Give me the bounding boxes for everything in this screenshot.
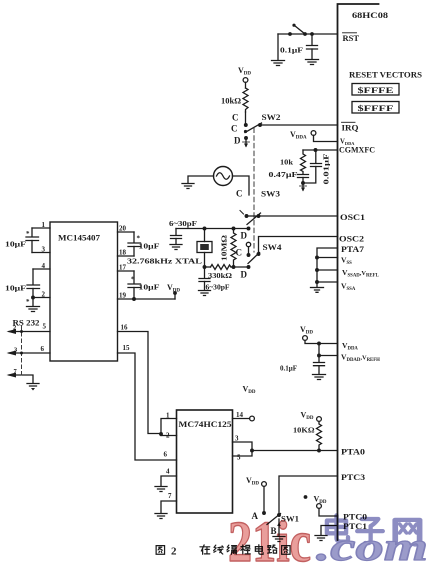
pin RST	[343, 33, 360, 43]
svg-text:6: 6	[164, 451, 168, 459]
wire B to ground	[278, 519, 280, 536]
pin 20	[118, 231, 135, 233]
svg-text:10kΩ: 10kΩ	[221, 97, 242, 106]
pin 15	[118, 353, 177, 460]
svg-text:C: C	[231, 124, 238, 134]
switch SW4	[248, 243, 282, 264]
reset switch (pushbutton)	[278, 24, 338, 36]
resistor 10K ohm	[293, 421, 322, 450]
power VDD terminal for A	[246, 476, 266, 487]
wire CGMXFC	[303, 149, 338, 151]
pin 1	[161, 419, 177, 436]
wire reset left leg	[277, 34, 279, 60]
svg-text:PTA0: PTA0	[341, 448, 365, 457]
svg-text:VDD: VDD	[238, 66, 251, 77]
ground	[306, 60, 319, 65]
svg-text:MC74HC125: MC74HC125	[179, 419, 233, 429]
power VDD terminal pin14	[250, 416, 255, 421]
wire PTC0	[319, 508, 338, 516]
wire OSC2	[259, 237, 338, 255]
pins PTA7/VSS rail to ground	[315, 248, 337, 287]
svg-text:0.1μF: 0.1μF	[280, 365, 297, 373]
caption 图2 在线编程电路图	[156, 545, 290, 558]
pin IRQ	[342, 122, 360, 132]
connector dashed line	[21, 326, 23, 377]
svg-text:SW2: SW2	[262, 113, 281, 122]
switch SW1	[267, 513, 299, 524]
svg-text:1: 1	[42, 221, 46, 229]
svg-text:VDD: VDD	[167, 283, 180, 294]
power VDDA terminal	[290, 130, 316, 141]
svg-text:VDD: VDD	[301, 411, 314, 422]
svg-text:OSC2: OSC2	[339, 234, 364, 244]
wire source left to ground	[188, 176, 214, 183]
ground	[155, 487, 167, 492]
svg-text:20: 20	[119, 225, 127, 233]
open contact terminal	[246, 242, 250, 257]
node dot	[304, 495, 308, 499]
pin 18	[118, 255, 135, 257]
wire	[245, 82, 247, 88]
svg-text:VDDA: VDDA	[342, 341, 358, 352]
svg-text:4: 4	[42, 262, 46, 270]
svg-text:RS 232: RS 232	[13, 319, 40, 328]
svg-text:PTC3: PTC3	[341, 473, 365, 482]
svg-text:10μF: 10μF	[5, 284, 27, 293]
arrow	[7, 373, 17, 378]
pin 2	[161, 435, 177, 437]
AC source (external clock)	[214, 167, 233, 186]
watermark 电子网	[327, 515, 420, 544]
capacitor 6~30pF left	[169, 219, 198, 244]
svg-text:2: 2	[166, 432, 170, 440]
svg-text:5: 5	[237, 454, 241, 462]
ground	[170, 245, 182, 250]
watermark 21ic.com 电子网	[228, 509, 428, 564]
capacitor 6~30pF bottom	[199, 267, 230, 292]
capacitor 0.1uF decoupling	[280, 356, 325, 375]
oscillator bottom rail + resistor 330k ohm	[205, 265, 249, 281]
svg-text:VSS: VSS	[341, 256, 352, 267]
svg-text:C: C	[232, 113, 239, 123]
svg-text:6~30pF: 6~30pF	[169, 219, 198, 228]
IC MC145407	[50, 222, 118, 361]
ground	[311, 288, 324, 293]
ground	[273, 537, 285, 542]
resistor 10k ohm pullup	[221, 88, 248, 112]
svg-text:10μF: 10μF	[139, 242, 161, 251]
ground	[272, 61, 285, 66]
svg-text:OSC1: OSC1	[340, 212, 365, 222]
svg-text:32.768kHz XTAL: 32.768kHz XTAL	[127, 257, 202, 266]
svg-text:0.47μF: 0.47μF	[269, 170, 299, 179]
power VDD above 10k	[238, 66, 251, 82]
box $FFFE	[352, 84, 399, 96]
box $FFFF	[352, 102, 399, 114]
arrow	[7, 329, 17, 334]
svg-text:IRQ: IRQ	[342, 124, 360, 133]
MCU 68HC08 boundary line	[338, 4, 379, 540]
svg-text:19: 19	[119, 292, 127, 300]
svg-text:VDD: VDD	[243, 385, 256, 396]
IC MC74HC125	[177, 410, 233, 513]
pin 4	[161, 476, 177, 486]
pin 16	[118, 332, 162, 434]
pin 5	[9, 331, 50, 333]
svg-text:RST: RST	[343, 34, 360, 43]
wire to ground	[31, 296, 35, 300]
ground	[315, 536, 327, 541]
svg-text:RESET VECTORS: RESET VECTORS	[349, 70, 422, 80]
power VDD mid terminal	[300, 325, 313, 340]
svg-text:68HC08: 68HC08	[352, 10, 389, 20]
svg-text:PTA7: PTA7	[341, 245, 364, 254]
svg-text:D: D	[241, 231, 248, 241]
svg-text:VDD: VDD	[246, 476, 259, 487]
capacitor 10uF (20-18)	[128, 232, 160, 256]
svg-text:2: 2	[171, 546, 177, 558]
svg-text:5: 5	[43, 323, 47, 331]
svg-text:VDDA: VDDA	[290, 130, 307, 141]
pin 1	[32, 227, 50, 229]
capacitor 0.01uF	[303, 150, 331, 185]
node junction + ground arrow	[300, 181, 307, 191]
svg-text:7: 7	[168, 492, 172, 500]
RS232 pin 7 wire	[9, 375, 33, 383]
wire PTC1 to ground	[321, 526, 338, 536]
resistor 10M ohm	[220, 229, 237, 268]
svg-text:10μF: 10μF	[5, 240, 27, 249]
wire PTA0	[252, 450, 338, 452]
capacitor 0.47uF	[269, 170, 309, 183]
wire VDDA to pin	[314, 135, 338, 141]
ground	[27, 307, 40, 312]
pin 2	[33, 297, 50, 299]
svg-text:18: 18	[119, 249, 127, 257]
svg-text:D: D	[234, 136, 241, 146]
wires VDD to VDDA & VDDAD pins	[305, 340, 338, 343]
svg-text:VDD: VDD	[300, 325, 313, 336]
svg-text:10MΩ: 10MΩ	[220, 235, 229, 261]
capacitor 10uF (17-19)	[128, 271, 160, 299]
gang dashed link SW2-SW3-SW4	[253, 128, 255, 252]
svg-text:4: 4	[166, 468, 170, 476]
svg-text:C: C	[236, 189, 243, 199]
wire IRQ	[260, 124, 338, 126]
switch SW3 on OSC1	[240, 211, 338, 225]
svg-text:10μF: 10μF	[139, 283, 161, 292]
svg-text:D: D	[241, 270, 248, 280]
svg-text:10k: 10k	[280, 158, 294, 167]
ground	[313, 375, 326, 380]
wire A	[263, 486, 265, 512]
power VDD at pin 19	[167, 283, 180, 299]
arrow	[7, 351, 17, 356]
pin 17	[118, 270, 135, 272]
svg-text:VSSA: VSSA	[341, 282, 356, 293]
pin 4	[33, 268, 50, 270]
wire to C contact	[245, 112, 247, 125]
wire source right to C contact	[233, 176, 250, 195]
resistor 10k filter	[280, 150, 306, 174]
svg-text:14: 14	[236, 411, 244, 419]
pin 14	[233, 418, 250, 420]
svg-text:15: 15	[123, 344, 131, 352]
capacitor C 0.1uF at RST	[307, 34, 318, 59]
svg-text:17: 17	[119, 264, 127, 272]
power VDD for 10K	[301, 411, 322, 422]
svg-text:10KΩ: 10KΩ	[293, 426, 315, 435]
ground	[182, 184, 194, 189]
svg-text:SW4: SW4	[263, 243, 282, 252]
ground arrow below D	[243, 140, 250, 148]
ground	[27, 384, 39, 391]
svg-text:3: 3	[42, 246, 46, 254]
pin 7	[161, 501, 177, 513]
svg-text:2: 2	[13, 325, 16, 332]
svg-text:VSSAD,VREFL: VSSAD,VREFL	[342, 268, 379, 279]
svg-text:MC145407: MC145407	[58, 233, 101, 243]
svg-text:0.01μF: 0.01μF	[322, 153, 331, 185]
pin 3	[233, 442, 253, 456]
switch SW2	[244, 113, 281, 140]
oscillator top rail	[176, 228, 249, 230]
svg-text:*: *	[131, 276, 135, 284]
svg-text:6: 6	[41, 345, 45, 353]
svg-text:330kΩ: 330kΩ	[208, 271, 232, 280]
wire PTC3	[279, 476, 338, 515]
svg-text:0.1μF: 0.1μF	[280, 46, 304, 55]
pin 3	[32, 252, 50, 254]
ground	[155, 514, 167, 519]
svg-text:$FFFE: $FFFE	[358, 86, 395, 95]
svg-text:VDDAD,VREFH: VDDAD,VREFH	[341, 353, 380, 364]
svg-text:2: 2	[42, 291, 46, 299]
capacitor 10uF (4-2)	[5, 269, 40, 306]
svg-text:SW3: SW3	[261, 190, 280, 199]
capacitor 10uF (1-3)	[5, 228, 39, 253]
svg-text:21ic: 21ic	[228, 509, 311, 564]
crystal 32.768kHz XTAL	[127, 229, 212, 268]
ground	[199, 291, 211, 296]
svg-text:CGMXFC: CGMXFC	[339, 146, 375, 155]
power VDD for PTC0	[314, 495, 327, 509]
svg-text:.com: .com	[316, 524, 428, 564]
svg-text:*: *	[26, 230, 30, 238]
svg-text:16: 16	[121, 324, 129, 332]
svg-text:$FFFF: $FFFF	[358, 104, 394, 113]
pin 6	[9, 352, 50, 354]
pin 19	[118, 298, 176, 300]
svg-text:*: *	[26, 298, 30, 306]
svg-text:3: 3	[235, 435, 239, 443]
svg-text:1: 1	[166, 412, 170, 420]
